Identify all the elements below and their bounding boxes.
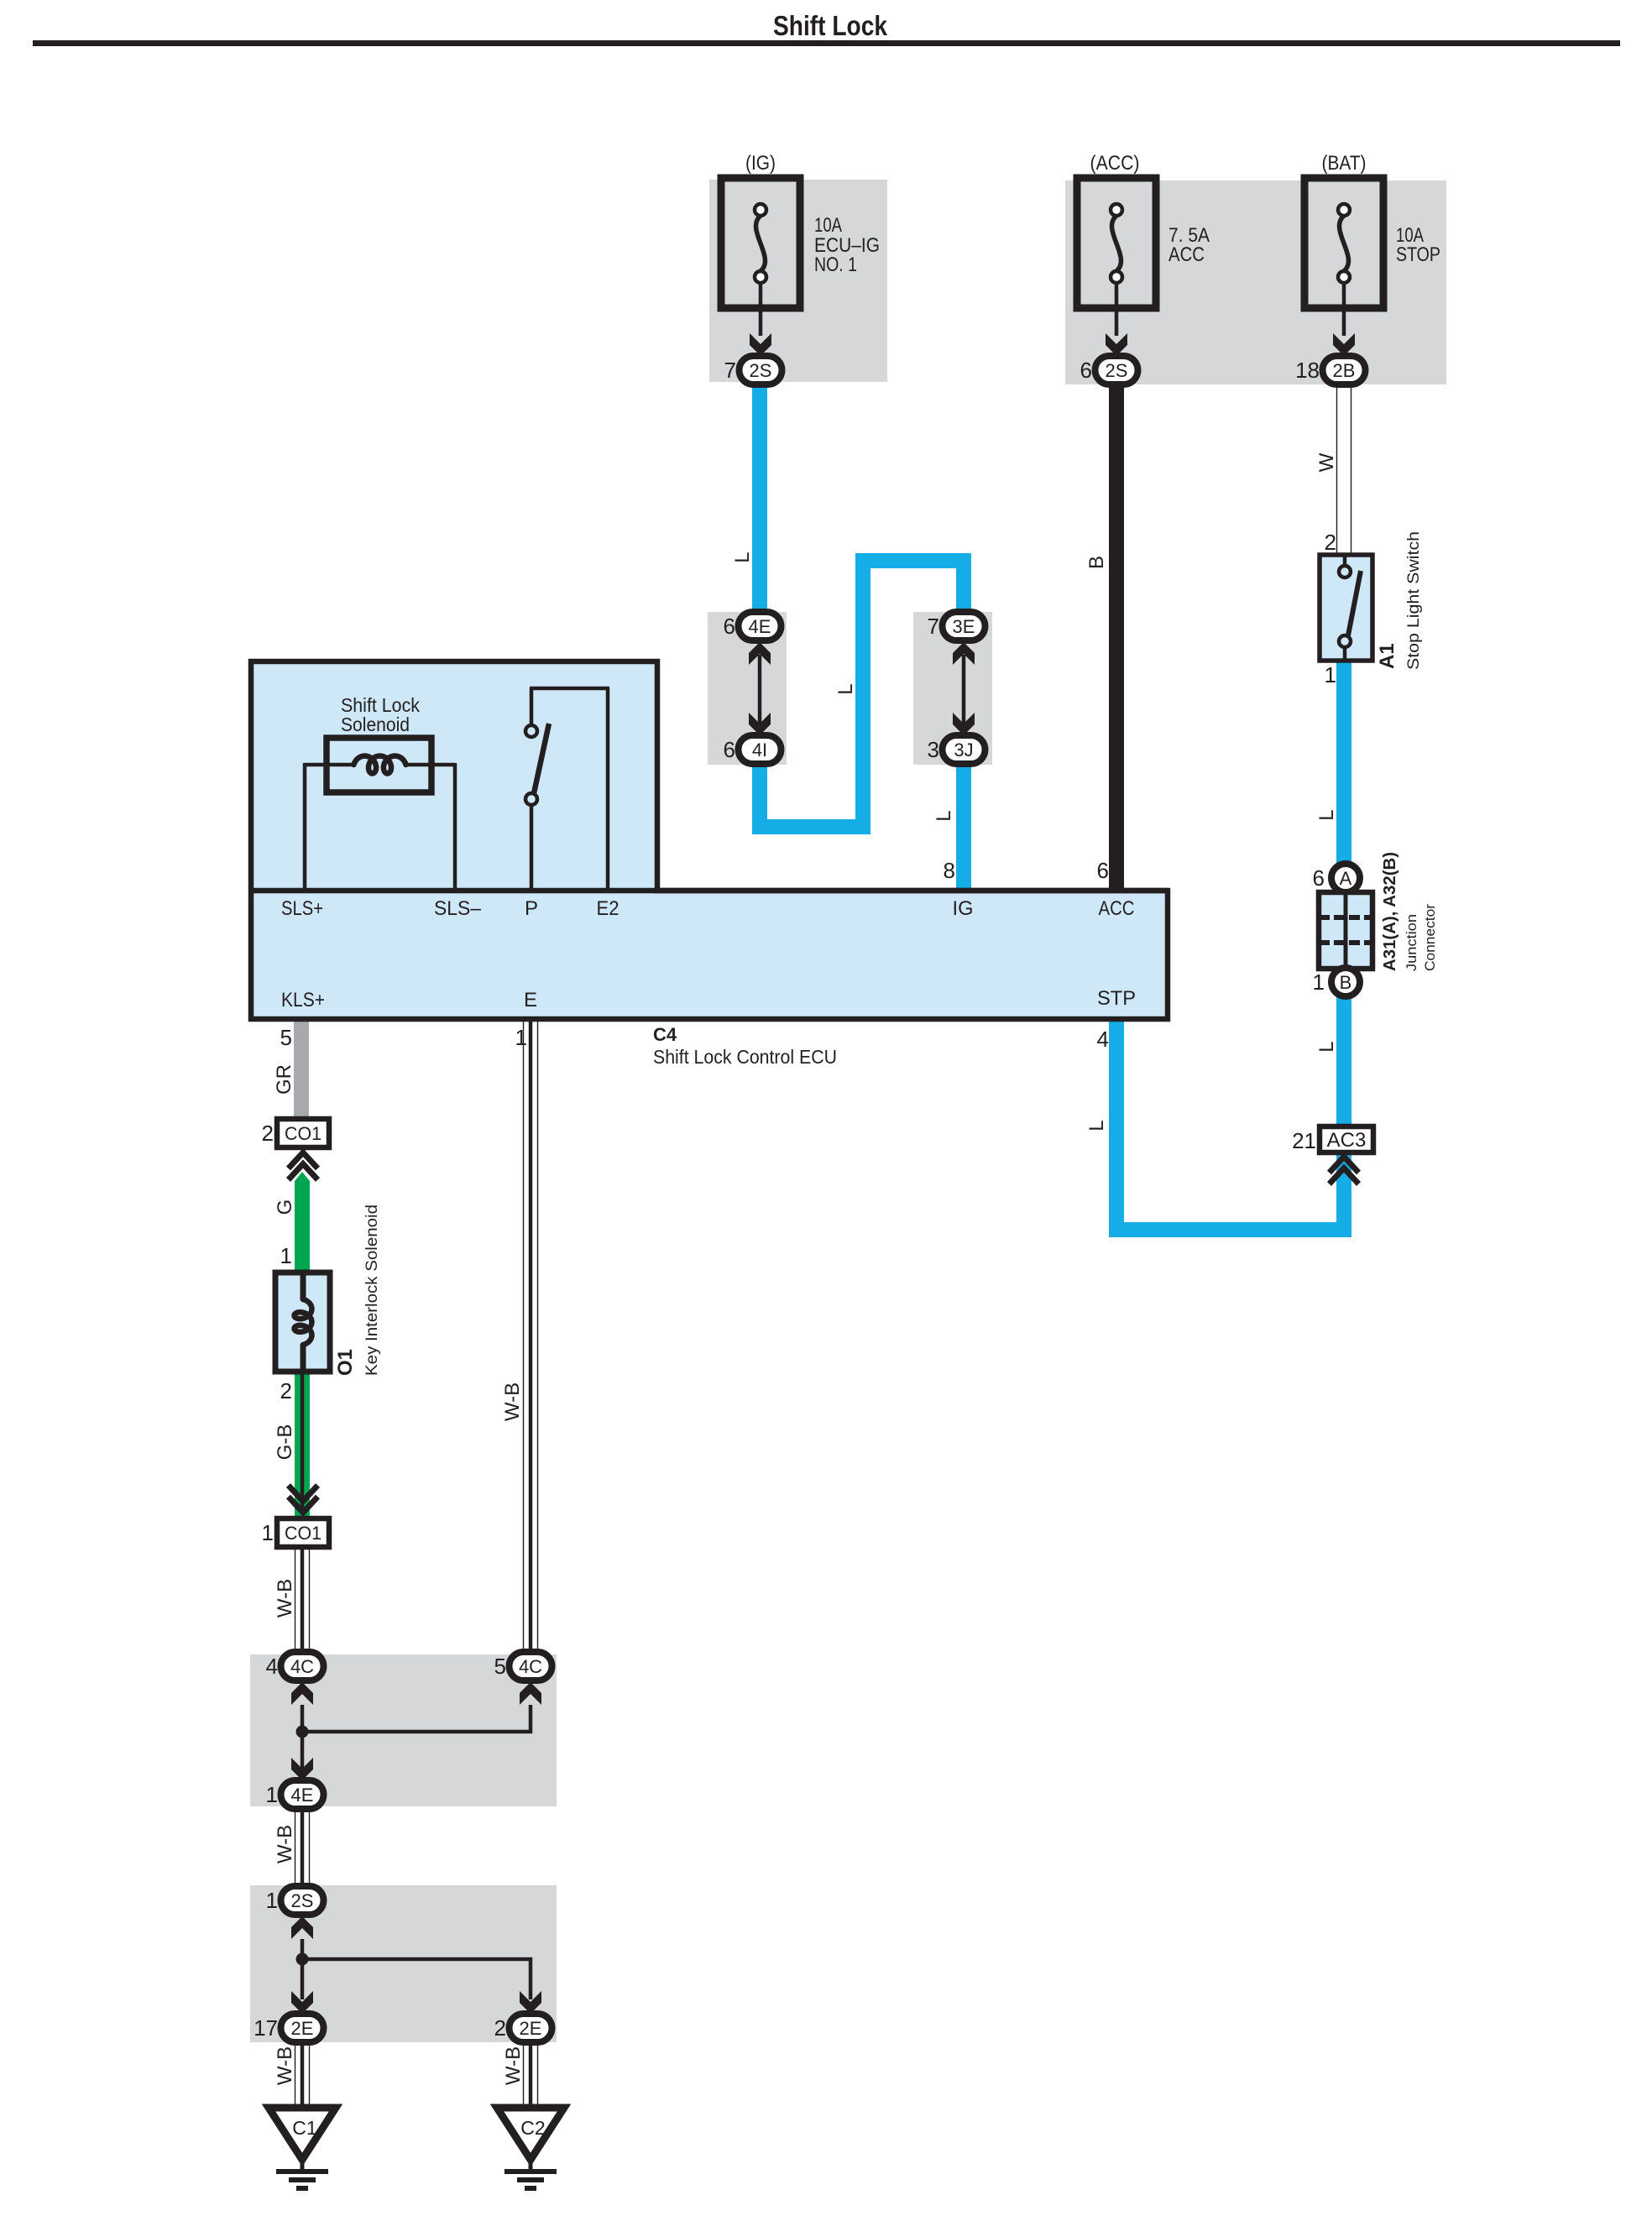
fusebox panel IG xyxy=(709,180,887,382)
svg-text:STOP: STOP xyxy=(1396,243,1440,266)
connector pin 7 3E xyxy=(943,612,985,640)
svg-text:2: 2 xyxy=(1325,530,1336,555)
fuse ECU-IG NO.1 xyxy=(721,178,800,308)
wire L IG fuse to 4E xyxy=(752,382,767,621)
svg-text:Solenoid: Solenoid xyxy=(341,713,410,735)
connector pin 2 2E xyxy=(510,2014,552,2042)
svg-text:17: 17 xyxy=(254,2015,278,2041)
connector pin 3 3J xyxy=(943,735,985,764)
chevrons CO1 upper xyxy=(289,1152,318,1168)
chevrons AC3 xyxy=(1330,1157,1359,1173)
svg-text:ACC: ACC xyxy=(1099,897,1135,920)
svg-text:L: L xyxy=(834,683,857,694)
svg-text:L: L xyxy=(933,810,955,821)
svg-text:E2: E2 xyxy=(597,897,619,920)
svg-text:1: 1 xyxy=(266,1782,278,1807)
svg-text:8: 8 xyxy=(944,858,955,883)
svg-text:CO1: CO1 xyxy=(285,1523,322,1544)
connector AC3 xyxy=(1320,1126,1373,1152)
wire L stop light switch to junction A xyxy=(1336,661,1351,1126)
svg-text:3J: 3J xyxy=(954,740,973,760)
svg-text:SLS–: SLS– xyxy=(434,897,482,920)
svg-text:6: 6 xyxy=(1080,358,1092,383)
svg-text:2S: 2S xyxy=(750,360,772,381)
connector pin 7 2S xyxy=(740,356,782,384)
connector CO1 lower xyxy=(277,1518,329,1547)
chevrons CO1 lower xyxy=(289,1497,318,1513)
svg-text:A1: A1 xyxy=(1376,643,1398,669)
arrow under 4C left xyxy=(291,1682,313,1705)
svg-text:18: 18 xyxy=(1295,358,1320,383)
svg-text:C1: C1 xyxy=(292,2117,316,2139)
junction terminal A xyxy=(1331,864,1360,892)
svg-text:10A: 10A xyxy=(814,214,842,237)
connector pass-through arrows 4E-4I xyxy=(758,655,762,724)
svg-text:E: E xyxy=(524,989,537,1011)
wire L AC3 to STP pin xyxy=(1116,1019,1344,1230)
arrow to 4E xyxy=(291,1758,313,1780)
svg-text:1: 1 xyxy=(262,1520,274,1545)
connector pin 1 2S xyxy=(281,1886,324,1915)
wire GR KLS+ to CO1 xyxy=(294,1019,309,1119)
title rule xyxy=(33,40,1620,46)
wire W-B 4E to 2S xyxy=(295,1809,296,1889)
solenoid left stub xyxy=(305,763,356,767)
svg-text:GR: GR xyxy=(273,1064,295,1095)
switch contact top xyxy=(1339,566,1351,578)
svg-text:2E: 2E xyxy=(291,2018,314,2039)
wire L 3J to IG pin xyxy=(956,754,971,891)
svg-text:1: 1 xyxy=(1325,662,1336,687)
svg-text:2B: 2B xyxy=(1333,360,1356,381)
svg-text:ACC: ACC xyxy=(1168,243,1205,266)
svg-text:1: 1 xyxy=(266,1888,278,1913)
wire SLS- internal xyxy=(453,763,457,891)
svg-text:Connector: Connector xyxy=(1422,904,1438,971)
wire junction to 4E xyxy=(301,1732,305,1772)
shift lock solenoid box xyxy=(327,738,431,792)
svg-text:4: 4 xyxy=(266,1654,278,1679)
switch contact bottom xyxy=(1339,635,1351,647)
switch top lead xyxy=(1343,555,1347,566)
connector CO1 upper xyxy=(277,1119,329,1147)
svg-text:Shift Lock: Shift Lock xyxy=(773,10,888,41)
svg-text:P: P xyxy=(525,897,538,920)
svg-text:NO. 1: NO. 1 xyxy=(814,253,857,276)
wire junction to 2E right xyxy=(302,1959,531,1999)
svg-text:STP: STP xyxy=(1097,987,1136,1010)
ground C1 xyxy=(269,2108,336,2160)
junction connector box xyxy=(1319,892,1372,969)
svg-text:2S: 2S xyxy=(1106,360,1128,381)
svg-text:Shift Lock Control ECU: Shift Lock Control ECU xyxy=(653,1046,837,1068)
wire fuse IG lead xyxy=(759,283,763,336)
svg-text:Key Interlock Solenoid: Key Interlock Solenoid xyxy=(363,1205,381,1376)
key interlock solenoid O1 box xyxy=(275,1273,330,1372)
svg-text:2S: 2S xyxy=(291,1890,314,1911)
svg-text:B: B xyxy=(1085,556,1108,569)
junction terminal B xyxy=(1331,968,1360,996)
key interlock solenoid coil xyxy=(301,1273,306,1300)
wire 4C left to junction xyxy=(301,1705,305,1732)
svg-text:W-B: W-B xyxy=(274,2046,296,2085)
connector pin 6 4I xyxy=(739,735,782,764)
arrow to 2E left xyxy=(291,1991,313,2014)
connector pass-through arrows 3E-3J xyxy=(962,655,966,724)
svg-text:5: 5 xyxy=(280,1025,292,1050)
connector panel 2S/2E xyxy=(250,1885,557,2042)
svg-text:1: 1 xyxy=(1313,969,1325,995)
svg-text:(IG): (IG) xyxy=(745,152,776,175)
svg-text:6: 6 xyxy=(1313,865,1325,891)
svg-text:W-B: W-B xyxy=(501,1382,524,1421)
svg-text:G: G xyxy=(274,1199,296,1215)
svg-text:3: 3 xyxy=(928,737,939,762)
svg-text:4I: 4I xyxy=(752,740,767,760)
svg-text:3E: 3E xyxy=(953,616,975,637)
junction dot xyxy=(296,1953,309,1966)
wire SLS+ internal xyxy=(303,763,307,891)
svg-text:L: L xyxy=(731,551,754,562)
svg-text:A31(A), A32(B): A31(A), A32(B) xyxy=(1381,852,1399,971)
wire W BAT fuse to stop light switch xyxy=(1336,385,1338,555)
svg-text:7: 7 xyxy=(928,614,939,639)
wire W-B 2E to ground C2 xyxy=(523,2042,525,2109)
wire fuse ACC lead xyxy=(1115,283,1119,336)
svg-text:4E: 4E xyxy=(749,616,771,637)
fuse ACC xyxy=(1077,178,1156,308)
svg-text:IG: IG xyxy=(953,897,974,920)
svg-text:CO1: CO1 xyxy=(285,1123,322,1144)
wire W-B CO1 to 4C xyxy=(295,1547,296,1655)
arrow under 4C right xyxy=(520,1682,541,1705)
svg-text:L: L xyxy=(1085,1120,1108,1131)
svg-text:O1: O1 xyxy=(334,1349,357,1376)
wire G CO1 to O1 xyxy=(295,1172,310,1273)
svg-text:KLS+: KLS+ xyxy=(281,989,325,1011)
ECU C4 body xyxy=(251,661,1168,1019)
svg-text:A: A xyxy=(1340,868,1352,889)
wire W-B E pin to 4C xyxy=(523,1019,525,1655)
stop light switch A1 box xyxy=(1320,555,1372,661)
junction dot xyxy=(296,1726,309,1738)
switch bottom lead xyxy=(1343,647,1347,661)
svg-text:6: 6 xyxy=(724,614,735,639)
svg-text:2: 2 xyxy=(280,1378,292,1403)
shift lock solenoid coil xyxy=(354,756,406,774)
wire B ACC fuse to ACC pin xyxy=(1109,382,1124,891)
svg-text:C2: C2 xyxy=(520,2117,545,2139)
connector pin 4 4C xyxy=(281,1652,324,1680)
svg-text:C4: C4 xyxy=(653,1024,677,1045)
fusebox panel ACC/BAT xyxy=(1065,180,1446,384)
connector pin 6 4E xyxy=(739,612,782,640)
svg-text:1: 1 xyxy=(515,1025,527,1050)
svg-text:4E: 4E xyxy=(291,1785,314,1806)
wire L 4I to 3E xyxy=(760,561,964,827)
wire 2S to junction xyxy=(301,1939,305,1959)
connector panel 4E/4I xyxy=(708,612,787,765)
svg-text:5: 5 xyxy=(494,1654,506,1679)
svg-text:AC3: AC3 xyxy=(1327,1129,1367,1152)
wire fuse BAT lead xyxy=(1342,283,1346,336)
svg-text:4C: 4C xyxy=(290,1656,314,1677)
svg-text:1: 1 xyxy=(280,1243,292,1268)
connector panel 3E/3J xyxy=(913,612,992,765)
svg-text:W-B: W-B xyxy=(502,2046,525,2085)
wire G-B O1 to CO1 xyxy=(295,1372,310,1516)
arrow under 2S xyxy=(291,1916,313,1939)
svg-text:SLS+: SLS+ xyxy=(281,897,323,920)
svg-text:2: 2 xyxy=(494,2015,506,2041)
connector pin 17 2E xyxy=(281,2014,324,2042)
svg-text:(ACC): (ACC) xyxy=(1090,152,1140,175)
wire W-B 2E to ground C1 xyxy=(295,2042,296,2109)
ground C2 xyxy=(497,2108,564,2160)
connector pin 1 4E xyxy=(281,1780,324,1809)
svg-text:L: L xyxy=(1315,1041,1338,1052)
svg-text:G-B: G-B xyxy=(274,1424,296,1461)
connector panel 4C/4E xyxy=(250,1654,557,1806)
connector pin 18 2B xyxy=(1323,356,1366,384)
svg-text:6: 6 xyxy=(724,737,735,762)
svg-text:2: 2 xyxy=(262,1121,274,1146)
svg-text:Junction: Junction xyxy=(1404,914,1419,971)
solenoid right stub xyxy=(404,763,455,767)
svg-text:(BAT): (BAT) xyxy=(1322,152,1367,175)
svg-text:2E: 2E xyxy=(520,2018,542,2039)
svg-text:W: W xyxy=(1315,452,1338,472)
connector pin 5 4C xyxy=(510,1652,552,1680)
wire junction to 2E left xyxy=(301,1959,305,1999)
arrow to 2E right xyxy=(520,1991,541,2014)
svg-text:6: 6 xyxy=(1097,858,1109,883)
svg-text:4: 4 xyxy=(1097,1027,1109,1052)
fuse STOP xyxy=(1304,178,1383,308)
svg-text:L: L xyxy=(1315,809,1338,820)
switch lever xyxy=(1348,571,1361,635)
wire junction to 4C right xyxy=(302,1705,531,1732)
svg-text:B: B xyxy=(1340,972,1352,993)
svg-text:W-B: W-B xyxy=(274,1825,296,1863)
svg-text:4C: 4C xyxy=(519,1656,542,1677)
ECU switch P-E2 xyxy=(530,688,534,727)
connector pin 6 2S xyxy=(1095,356,1138,384)
svg-text:W-B: W-B xyxy=(274,1579,296,1618)
svg-text:21: 21 xyxy=(1292,1128,1316,1153)
svg-text:Stop Light Switch: Stop Light Switch xyxy=(1405,531,1423,670)
svg-text:7: 7 xyxy=(724,358,736,383)
